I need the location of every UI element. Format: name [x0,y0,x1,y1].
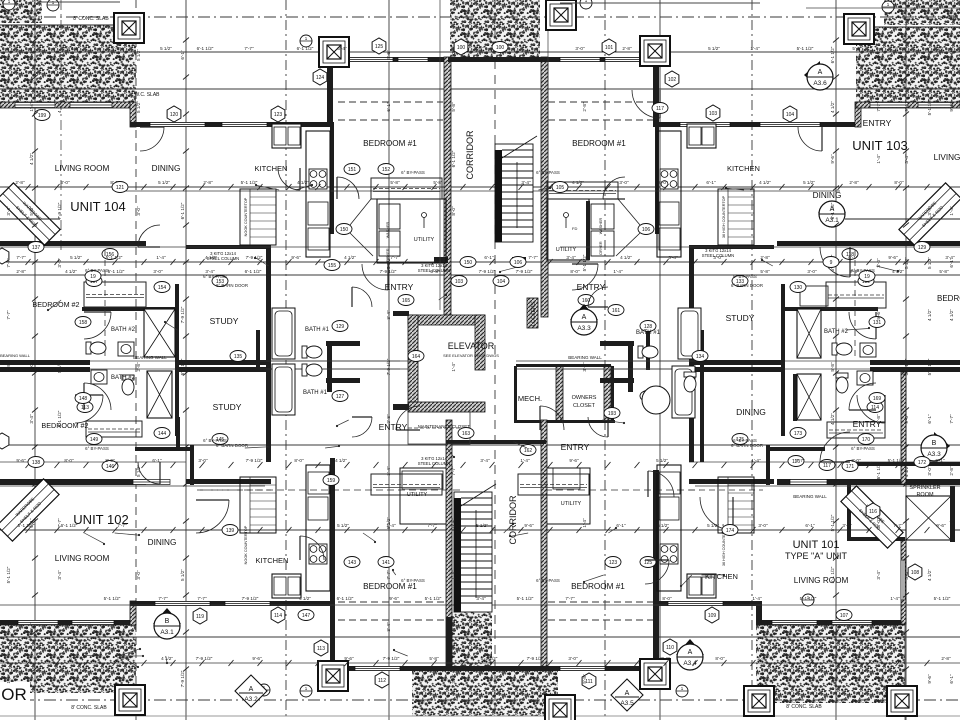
svg-text:1'-4": 1'-4" [57,50,62,60]
svg-text:3'-0": 3'-0" [582,362,587,372]
svg-text:3'-4": 3'-4" [876,570,881,580]
svg-text:1'-4": 1'-4" [520,458,530,463]
svg-text:KITCHEN: KITCHEN [256,556,289,565]
svg-text:4 1/2": 4 1/2" [759,180,771,185]
svg-text:STUDY: STUDY [210,316,239,326]
svg-text:3'-0": 3'-0" [60,180,70,185]
svg-text:LIVING ROOM: LIVING ROOM [55,164,110,173]
svg-text:6° BY-PASS: 6° BY-PASS [536,170,560,175]
grid and dimension lines [34,0,36,720]
svg-text:9: 9 [830,260,833,266]
svg-text:2'-8": 2'-8" [203,180,213,185]
bath fixtures [86,342,106,354]
svg-text:BATH #2: BATH #2 [111,327,136,333]
svg-text:8' CON: 8' CON [942,15,959,21]
svg-text:A3.3: A3.3 [577,325,591,332]
svg-text:4 1/2": 4 1/2" [335,458,347,463]
svg-text:100: 100 [496,45,505,51]
svg-text:6° BY-PASS: 6° BY-PASS [536,578,560,583]
svg-text:9'-6": 9'-6" [386,50,391,60]
svg-text:6'-1 1/2": 6'-1 1/2" [481,656,498,661]
svg-text:7'-7": 7'-7" [390,255,400,260]
svg-text:150: 150 [464,260,473,266]
kitchens [306,131,330,257]
svg-text:1'-4": 1'-4" [156,255,166,260]
svg-text:3'-0": 3'-0" [807,269,817,274]
svg-text:B: B [932,440,937,447]
svg-text:4 1/2": 4 1/2" [297,180,309,185]
svg-text:2'-8": 2'-8" [136,362,141,372]
svg-text:3'-0": 3'-0" [619,180,629,185]
svg-text:106: 106 [642,227,651,233]
svg-text:LIVING ROOM: LIVING ROOM [794,576,849,585]
svg-text:UNIT 104: UNIT 104 [70,199,125,214]
svg-text:7'-9 1/2": 7'-9 1/2" [63,46,80,51]
svg-text:7'-7": 7'-7" [427,523,437,528]
svg-text:164: 164 [412,354,421,360]
svg-text:A: A [249,686,254,693]
svg-text:5'-1 1/2": 5'-1 1/2" [830,566,835,583]
svg-text:6° BY-PASS: 6° BY-PASS [85,268,109,273]
svg-text:5'-8": 5'-8" [57,622,62,632]
svg-text:2'-8": 2'-8" [16,269,26,274]
svg-text:5 1/2": 5 1/2" [707,523,719,528]
svg-text:5'-8": 5'-8" [433,180,443,185]
svg-text:155: 155 [328,263,337,269]
svg-text:3'-0": 3'-0" [29,362,34,372]
svg-text:4 1/2": 4 1/2" [927,309,932,321]
svg-text:BATH #1: BATH #1 [305,327,330,333]
svg-text:STUDY: STUDY [726,313,755,323]
svg-text:2'-8": 2'-8" [849,180,859,185]
svg-text:9'-6": 9'-6" [936,523,946,528]
svg-text:A: A [582,314,587,321]
svg-text:5'-8": 5'-8" [582,674,587,684]
svg-text:169: 169 [873,396,882,402]
svg-text:143: 143 [348,560,357,566]
svg-text:3'-4": 3'-4" [904,154,909,164]
svg-text:BEDROOM #2: BEDROOM #2 [32,300,79,309]
svg-text:162: 162 [524,448,533,454]
svg-text:3'-0": 3'-0" [842,523,852,528]
svg-text:9'-6": 9'-6" [524,523,534,528]
svg-text:BEARING WALL: BEARING WALL [568,355,602,360]
svg-text:5'-1 1/2": 5'-1 1/2" [927,358,932,375]
stairs [495,144,533,242]
svg-text:6'-1 1/2": 6'-1 1/2" [245,269,262,274]
svg-text:3'-4": 3'-4" [386,622,391,632]
svg-text:1'-4": 1'-4" [751,458,761,463]
svg-text:5'-8": 5'-8" [390,180,400,185]
svg-text:B: B [165,618,170,625]
svg-text:UTILITY: UTILITY [561,501,582,507]
svg-text:3'-0": 3'-0" [198,458,208,463]
concrete slab stipple regions [0,0,42,23]
svg-text:3'-0": 3'-0" [451,674,456,684]
svg-text:MECH.: MECH. [518,394,542,403]
svg-text:125: 125 [375,44,384,50]
svg-text:5'-1 1/2": 5'-1 1/2" [797,46,814,51]
svg-text:5 1/2": 5 1/2" [708,46,720,51]
svg-text:5 1/2": 5 1/2" [158,180,170,185]
svg-text:6'-1 1/2": 6'-1 1/2" [337,596,354,601]
svg-text:3'-4": 3'-4" [386,466,391,476]
svg-text:7'-9 1/2": 7'-9 1/2" [451,618,456,635]
svg-text:3'-0": 3'-0" [136,206,141,216]
svg-text:4 1/2": 4 1/2" [344,255,356,260]
bedroom block walls (top) [327,57,451,62]
svg-text:1'-4": 1'-4" [29,102,34,112]
svg-text:1'-4": 1'-4" [876,154,881,164]
svg-text:OR: OR [1,685,27,704]
svg-text:4 1/2": 4 1/2" [830,101,835,113]
svg-text:5'-8": 5'-8" [760,269,770,274]
svg-text:5 1/2": 5 1/2" [136,101,141,113]
svg-text:MAINTENANCE CLOSET: MAINTENANCE CLOSET [418,424,470,429]
svg-text:9'-6": 9'-6" [904,102,909,112]
svg-text:9'-6": 9'-6" [451,518,456,528]
svg-text:6'-1": 6'-1" [386,102,391,112]
svg-text:8'-0": 8'-0" [894,180,904,185]
svg-text:6° BARN DOOR: 6° BARN DOOR [731,283,763,288]
svg-text:3'-0": 3'-0" [927,466,932,476]
svg-text:8'-0": 8'-0" [451,206,456,216]
svg-text:ROOM: ROOM [916,492,934,498]
svg-text:6'-1 1/2": 6'-1 1/2" [297,46,314,51]
svg-text:135: 135 [234,354,243,360]
svg-text:7'-7": 7'-7" [6,310,11,320]
svg-text:UTILITY: UTILITY [414,237,435,243]
svg-text:3'-0": 3'-0" [153,269,163,274]
svg-text:150: 150 [340,227,349,233]
elevator shaft [408,315,485,412]
svg-text:7'-9 1/2": 7'-9 1/2" [527,656,544,661]
svg-text:3'-4": 3'-4" [29,414,34,424]
svg-text:9'-6": 9'-6" [16,458,26,463]
svg-text:6° BY-PASS: 6° BY-PASS [401,170,425,175]
svg-text:WASHER: WASHER [599,217,603,234]
svg-text:3'-4": 3'-4" [6,206,11,216]
svg-text:1'-4": 1'-4" [613,269,623,274]
svg-text:6'-1": 6'-1" [949,674,954,684]
svg-text:5'-1 1/2": 5'-1 1/2" [425,596,442,601]
svg-text:3'-4": 3'-4" [927,206,932,216]
svg-text:A3.1: A3.1 [160,629,174,636]
svg-text:DINING: DINING [152,164,181,173]
svg-text:161: 161 [612,308,621,314]
svg-text:KITCHEN: KITCHEN [727,164,760,173]
svg-text:5'-1 1/2": 5'-1 1/2" [927,98,932,115]
svg-text:SPRINKLER: SPRINKLER [909,485,940,491]
svg-text:BATH #1: BATH #1 [303,390,328,396]
svg-text:6'-1 1/2": 6'-1 1/2" [830,202,835,219]
svg-text:9'-6": 9'-6" [927,674,932,684]
svg-text:BATH #2: BATH #2 [824,329,849,335]
svg-text:193: 193 [608,411,617,417]
svg-text:DINING: DINING [813,191,842,200]
svg-text:4 1/2": 4 1/2" [29,153,34,165]
column markers [114,13,144,43]
svg-text:1'-4": 1'-4" [752,596,762,601]
svg-text:A3.2: A3.2 [244,696,258,703]
svg-text:7'-7": 7'-7" [949,414,954,424]
svg-text:2'-8": 2'-8" [941,656,951,661]
svg-text:ENTRY: ENTRY [385,282,414,292]
unit 104/102 interior walls [0,241,146,246]
svg-text:LIVING ROOM: LIVING ROOM [55,554,110,563]
svg-text:4 1/2": 4 1/2" [299,596,311,601]
svg-text:5'-8": 5'-8" [429,656,439,661]
svg-text:129: 129 [918,245,927,251]
svg-text:DINING: DINING [148,538,177,547]
svg-text:BATH #2: BATH #2 [111,375,136,381]
svg-text:SEE ELEVATOR SHOP DWGS: SEE ELEVATOR SHOP DWGS [443,353,499,358]
svg-text:170: 170 [862,437,871,443]
svg-text:KITCHEN: KITCHEN [255,164,288,173]
svg-text:1'-4": 1'-4" [949,206,954,216]
svg-text:8'-0": 8'-0" [662,596,672,601]
svg-text:6° BARN DOOR: 6° BARN DOOR [216,283,248,288]
svg-text:ENTRY: ENTRY [561,442,590,452]
svg-text:154: 154 [158,285,167,291]
svg-text:9'-6": 9'-6" [927,50,932,60]
svg-text:BEARING WALL: BEARING WALL [133,355,167,360]
svg-text:152: 152 [382,167,391,173]
svg-text:9'-6": 9'-6" [291,255,301,260]
svg-text:6° BY-PASS: 6° BY-PASS [851,268,875,273]
svg-text:BEDROOM #1: BEDROOM #1 [363,582,417,591]
svg-text:2'-8": 2'-8" [116,656,126,661]
svg-text:5 1/2": 5 1/2" [386,257,391,269]
svg-text:3'-4": 3'-4" [29,622,34,632]
svg-text:100: 100 [457,45,466,51]
svg-text:5'-1 1/2": 5'-1 1/2" [6,566,11,583]
svg-text:BEARING WALL: BEARING WALL [0,353,31,358]
svg-text:LOCKERS: LOCKERS [531,301,537,326]
svg-text:2'-8": 2'-8" [15,180,25,185]
svg-text:165: 165 [402,298,411,304]
door swings [337,177,359,199]
svg-text:106: 106 [514,260,523,266]
svg-text:6° BARN DOOR: 6° BARN DOOR [731,443,763,448]
svg-text:9'-6": 9'-6" [111,46,121,51]
svg-text:151: 151 [348,167,357,173]
svg-text:7'-9 1/2": 7'-9 1/2" [246,458,263,463]
unit 103/101 interior walls [777,241,960,246]
svg-text:BEARING WALL: BEARING WALL [793,494,827,499]
svg-text:144: 144 [158,431,167,437]
svg-text:9'-6": 9'-6" [876,310,881,320]
svg-text:117: 117 [656,106,664,112]
svg-text:DINING: DINING [736,407,766,417]
svg-text:103: 103 [709,111,718,117]
svg-text:BEDROOM #1: BEDROOM #1 [363,139,417,148]
svg-text:5 1/2": 5 1/2" [949,517,954,529]
svg-text:7'-9 1/2": 7'-9 1/2" [242,596,259,601]
svg-text:123: 123 [274,112,283,118]
svg-text:2'-8": 2'-8" [582,102,587,112]
svg-text:129: 129 [336,324,345,330]
svg-text:6° BARN DOOR: 6° BARN DOOR [216,443,248,448]
svg-text:BEDROOM #1: BEDROOM #1 [572,139,626,148]
svg-text:A3.3: A3.3 [927,451,941,458]
svg-text:105: 105 [556,185,565,191]
reference markers [167,106,181,122]
corridor walls (bottom) [446,420,452,670]
svg-text:4 1/2": 4 1/2" [65,269,77,274]
svg-text:5 1/2": 5 1/2" [927,257,932,269]
svg-text:159: 159 [327,478,336,484]
svg-text:5 1/2": 5 1/2" [657,523,669,528]
svg-text:5'-1 1/2": 5'-1 1/2" [800,596,817,601]
svg-text:2'-8": 2'-8" [757,656,767,661]
svg-text:5 1/2": 5 1/2" [476,523,488,528]
svg-text:8'-0": 8'-0" [895,46,905,51]
svg-text:2'-8": 2'-8" [474,46,484,51]
svg-text:4 1/2": 4 1/2" [927,569,932,581]
svg-text:147: 147 [302,613,311,619]
svg-text:148: 148 [79,396,88,402]
svg-text:199: 199 [38,113,47,119]
svg-text:8'-0": 8'-0" [570,269,580,274]
svg-text:5'-8": 5'-8" [451,102,456,112]
svg-text:5'-8": 5'-8" [939,269,949,274]
svg-text:1'-4": 1'-4" [6,674,11,684]
svg-text:104: 104 [497,279,506,285]
svg-text:W.C. SLAB: W.C. SLAB [134,92,160,98]
svg-text:107: 107 [840,613,849,619]
svg-text:5 1/2": 5 1/2" [386,517,391,529]
svg-text:BEDROOM #2: BEDROOM #2 [41,421,88,430]
svg-text:1'-4": 1'-4" [750,46,760,51]
svg-text:5'-1 1/2": 5'-1 1/2" [104,596,121,601]
svg-text:7'-7": 7'-7" [16,255,26,260]
svg-text:173: 173 [794,431,803,437]
svg-text:125: 125 [644,560,653,566]
svg-text:9'-6": 9'-6" [830,154,835,164]
svg-text:7'-9 1/2": 7'-9 1/2" [516,269,533,274]
svg-text:4 1/2": 4 1/2" [949,309,954,321]
svg-text:CORRIDOR: CORRIDOR [465,130,475,179]
svg-text:8'-0": 8'-0" [658,180,668,185]
utility rooms [377,199,446,263]
svg-text:110: 110 [666,645,674,651]
svg-text:7'-9 1/2": 7'-9 1/2" [57,202,62,219]
svg-text:8'-0": 8'-0" [451,50,456,60]
svg-text:7'-7": 7'-7" [893,523,903,528]
svg-text:5'-8": 5'-8" [852,46,862,51]
svg-text:4 1/2": 4 1/2" [572,180,584,185]
svg-text:1'-4": 1'-4" [582,518,587,528]
svg-text:4 1/2": 4 1/2" [830,413,835,425]
svg-text:6'-1": 6'-1" [484,255,494,260]
svg-text:2'-8": 2'-8" [6,362,11,372]
svg-text:7'-9 1/2": 7'-9 1/2" [180,306,185,323]
svg-text:134: 134 [696,354,705,360]
svg-text:ENTRY: ENTRY [863,118,892,128]
svg-text:9'-6": 9'-6" [569,458,579,463]
svg-text:7'-9 1/2": 7'-9 1/2" [949,46,954,63]
bedroom block walls (bottom) [330,458,335,670]
svg-text:8' CONC. SLAB: 8' CONC. SLAB [73,16,109,22]
svg-text:36 HIGH COUNTERTOP: 36 HIGH COUNTERTOP [722,195,726,238]
svg-text:102: 102 [668,77,677,83]
svg-text:3'-0": 3'-0" [758,523,768,528]
svg-text:BEDROOM: BEDROOM [937,294,960,303]
svg-text:101: 101 [605,45,614,51]
svg-text:5'-1 1/2": 5'-1 1/2" [57,410,62,427]
svg-text:6° BY-PASS: 6° BY-PASS [851,446,875,451]
svg-text:3'-4": 3'-4" [876,50,881,60]
svg-text:103: 103 [455,279,464,285]
svg-text:6'-1": 6'-1" [706,180,716,185]
svg-text:A: A [818,69,823,76]
svg-text:6° BY-PASS: 6° BY-PASS [401,578,425,583]
svg-text:19: 19 [90,274,96,280]
svg-text:A3.5: A3.5 [620,700,634,707]
svg-text:9'-6": 9'-6" [949,102,954,112]
svg-text:BEDROOM #1: BEDROOM #1 [571,582,625,591]
svg-text:ELEVATOR: ELEVATOR [448,341,495,351]
svg-text:5 1/2": 5 1/2" [337,523,349,528]
svg-text:UTILITY: UTILITY [407,492,428,498]
svg-text:2'-8": 2'-8" [622,46,632,51]
svg-text:7'-9 1/2": 7'-9 1/2" [180,670,185,687]
svg-text:4 1/2": 4 1/2" [904,465,909,477]
svg-text:6'-1": 6'-1" [852,656,862,661]
svg-text:123: 123 [609,560,618,566]
svg-text:OWNERS: OWNERS [572,395,597,401]
svg-text:3'-4": 3'-4" [29,50,34,60]
svg-text:3'-4": 3'-4" [668,255,678,260]
svg-text:7'-7": 7'-7" [117,523,127,528]
svg-text:5 1/2": 5 1/2" [656,458,668,463]
svg-text:7'-7": 7'-7" [197,596,207,601]
svg-text:8'-0": 8'-0" [715,656,725,661]
svg-text:5'-1 1/2": 5'-1 1/2" [108,269,125,274]
svg-text:8'-0": 8'-0" [64,458,74,463]
svg-text:DRYER: DRYER [599,241,603,254]
svg-text:8' CONC. SLAB: 8' CONC. SLAB [786,704,822,710]
svg-text:121: 121 [116,185,125,191]
svg-text:113: 113 [317,646,325,652]
svg-text:7'-7": 7'-7" [830,674,835,684]
svg-text:7'-9 1/2": 7'-9 1/2" [386,358,391,375]
svg-text:UNIT 101: UNIT 101 [793,539,840,551]
svg-text:7'-7": 7'-7" [57,518,62,528]
svg-text:4 1/2": 4 1/2" [933,46,945,51]
svg-text:ENTRY: ENTRY [577,282,606,292]
svg-text:3'-4": 3'-4" [57,570,62,580]
svg-text:117: 117 [823,463,831,469]
svg-text:7'-7": 7'-7" [386,570,391,580]
svg-text:3'-0": 3'-0" [851,458,861,463]
svg-text:6'-1": 6'-1" [935,458,945,463]
svg-text:120: 120 [170,112,179,118]
svg-text:5'-8": 5'-8" [430,269,440,274]
unit 104 exterior walls [0,102,136,108]
svg-text:5'-8": 5'-8" [876,414,881,424]
svg-text:3'-0": 3'-0" [568,656,578,661]
svg-text:BATH #1: BATH #1 [636,330,661,336]
svg-text:104: 104 [786,112,795,118]
svg-text:UNIT 103: UNIT 103 [852,138,907,153]
svg-text:6° BY-PASS: 6° BY-PASS [203,438,227,443]
svg-text:127: 127 [336,394,345,400]
svg-text:KITCHEN: KITCHEN [705,572,738,581]
svg-text:9'-6": 9'-6" [389,596,399,601]
svg-text:7'-7": 7'-7" [565,596,575,601]
